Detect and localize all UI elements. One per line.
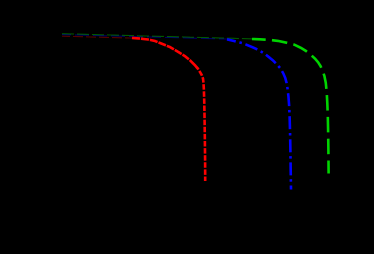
curve 1 (red) overlapped dim top segment (62, 36, 134, 38)
curve 1 (red) solid knee (132, 38, 198, 69)
curve 1 (red) steep dashed drop (195, 65, 205, 181)
curve 2 (blue) overlapped dim top segment (62, 35, 229, 40)
curve 3 (green) overlapped dim top segment (62, 34, 254, 39)
curve 3 (green) dashed knee and drop (252, 39, 329, 174)
curve 2 (blue) dash-dot knee and drop (227, 39, 291, 189)
